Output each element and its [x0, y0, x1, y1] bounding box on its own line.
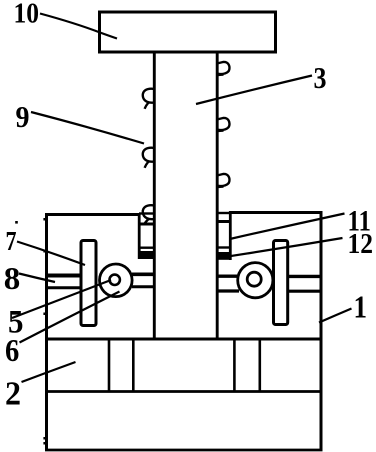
- svg-text:9: 9: [16, 99, 30, 134]
- svg-text:7: 7: [6, 226, 17, 256]
- svg-text:8: 8: [4, 260, 21, 296]
- svg-text:3: 3: [314, 60, 327, 95]
- svg-text:12: 12: [348, 228, 374, 260]
- svg-text:6: 6: [5, 332, 19, 368]
- svg-text:2: 2: [5, 375, 21, 412]
- svg-text:10: 10: [14, 0, 40, 30]
- svg-text:1: 1: [354, 289, 368, 325]
